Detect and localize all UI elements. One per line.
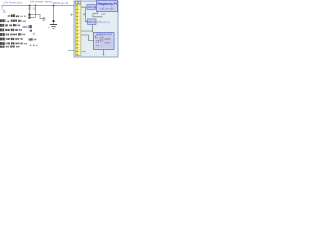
row 3 blue note — [22, 26, 27, 28]
row 8 pin label — [0, 46, 5, 48]
svg-text:1V8 reg: 1V8 reg — [88, 6, 97, 9]
row 6 side note — [29, 38, 34, 40]
3.3V power rail wire — [2, 6, 76, 8]
wire SoC to board edge with arrow — [103, 50, 105, 55]
text texture slits — [2, 14, 35, 48]
SoC pin nub — [95, 36, 96, 37]
Raspberry Pi label box — [97, 1, 118, 12]
SoC inner text — [96, 38, 111, 47]
power source glyph — [2, 9, 6, 13]
switch S1 — [43, 18, 45, 19]
GPIO header P1 strip — [76, 4, 81, 55]
pin list text block — [0, 14, 37, 47]
SoC driver circle — [101, 39, 104, 42]
svg-text:GPIO: GPIO — [105, 38, 111, 41]
grey cross note — [33, 33, 36, 36]
peripheral box U2 — [88, 19, 97, 25]
arrow glyph right of header — [82, 51, 85, 53]
svg-text:BCM2835 GPIO: BCM2835 GPIO — [96, 34, 112, 36]
row 6 pin label — [0, 38, 5, 41]
svg-text:ctrl in: ctrl in — [105, 42, 111, 45]
green junction cross right — [83, 13, 86, 16]
resistor R1 — [29, 7, 31, 10]
svg-text:10k resistor: 10k resistor — [30, 0, 44, 3]
SoC box U3 — [94, 33, 115, 50]
svg-text:GPIO18: GPIO18 — [96, 37, 104, 39]
ground wire — [53, 6, 55, 25]
peripheral box U4 — [87, 5, 95, 10]
row 1 pin label — [8, 15, 11, 16]
row 7 pin label — [0, 42, 5, 45]
row 2 pin label — [0, 19, 5, 22]
wire vertical from rail — [35, 4, 37, 18]
svg-text:out: out — [96, 44, 99, 47]
row 4 pin label — [0, 29, 4, 32]
junction on rail at ground stem — [53, 5, 55, 7]
row 3 pin label — [0, 24, 4, 27]
wire 3v3 inside pi — [81, 7, 88, 21]
green junction cross left — [70, 14, 73, 17]
arrow into U2 — [86, 21, 88, 23]
external wire arrow into header — [69, 50, 75, 52]
svg-text:3.3V Power input: 3.3V Power input — [3, 2, 22, 5]
wire junction link — [30, 17, 36, 19]
row 5 pin label — [0, 33, 5, 36]
wire U2 to header — [81, 25, 93, 33]
junction A — [29, 14, 31, 16]
svg-text:I2C: I2C — [102, 12, 106, 16]
wire to switch — [30, 15, 44, 19]
svg-text:4.7k pull up: 4.7k pull up — [97, 20, 111, 24]
junction on rail — [29, 5, 31, 7]
svg-text:(v1 or v2): (v1 or v2) — [100, 6, 113, 10]
header P1 label cells — [75, 1, 78, 4]
wire from label box — [93, 11, 103, 17]
SoC pin label — [96, 36, 103, 39]
svg-text:3V3 IO: 3V3 IO — [88, 21, 96, 24]
header pins — [77, 5, 81, 55]
SoC inner wire — [96, 38, 101, 41]
wire resistor down — [29, 6, 31, 19]
junction on rail 2 — [35, 5, 36, 6]
svg-text:GPIO1 pin 12: GPIO1 pin 12 — [53, 1, 69, 5]
ground — [50, 25, 57, 29]
svg-text:switch: switch — [45, 0, 53, 3]
junction B — [29, 17, 31, 19]
Raspberry Pi outline box — [74, 1, 118, 57]
wire header to SoC — [81, 35, 94, 41]
junction on ground stem — [53, 20, 55, 22]
